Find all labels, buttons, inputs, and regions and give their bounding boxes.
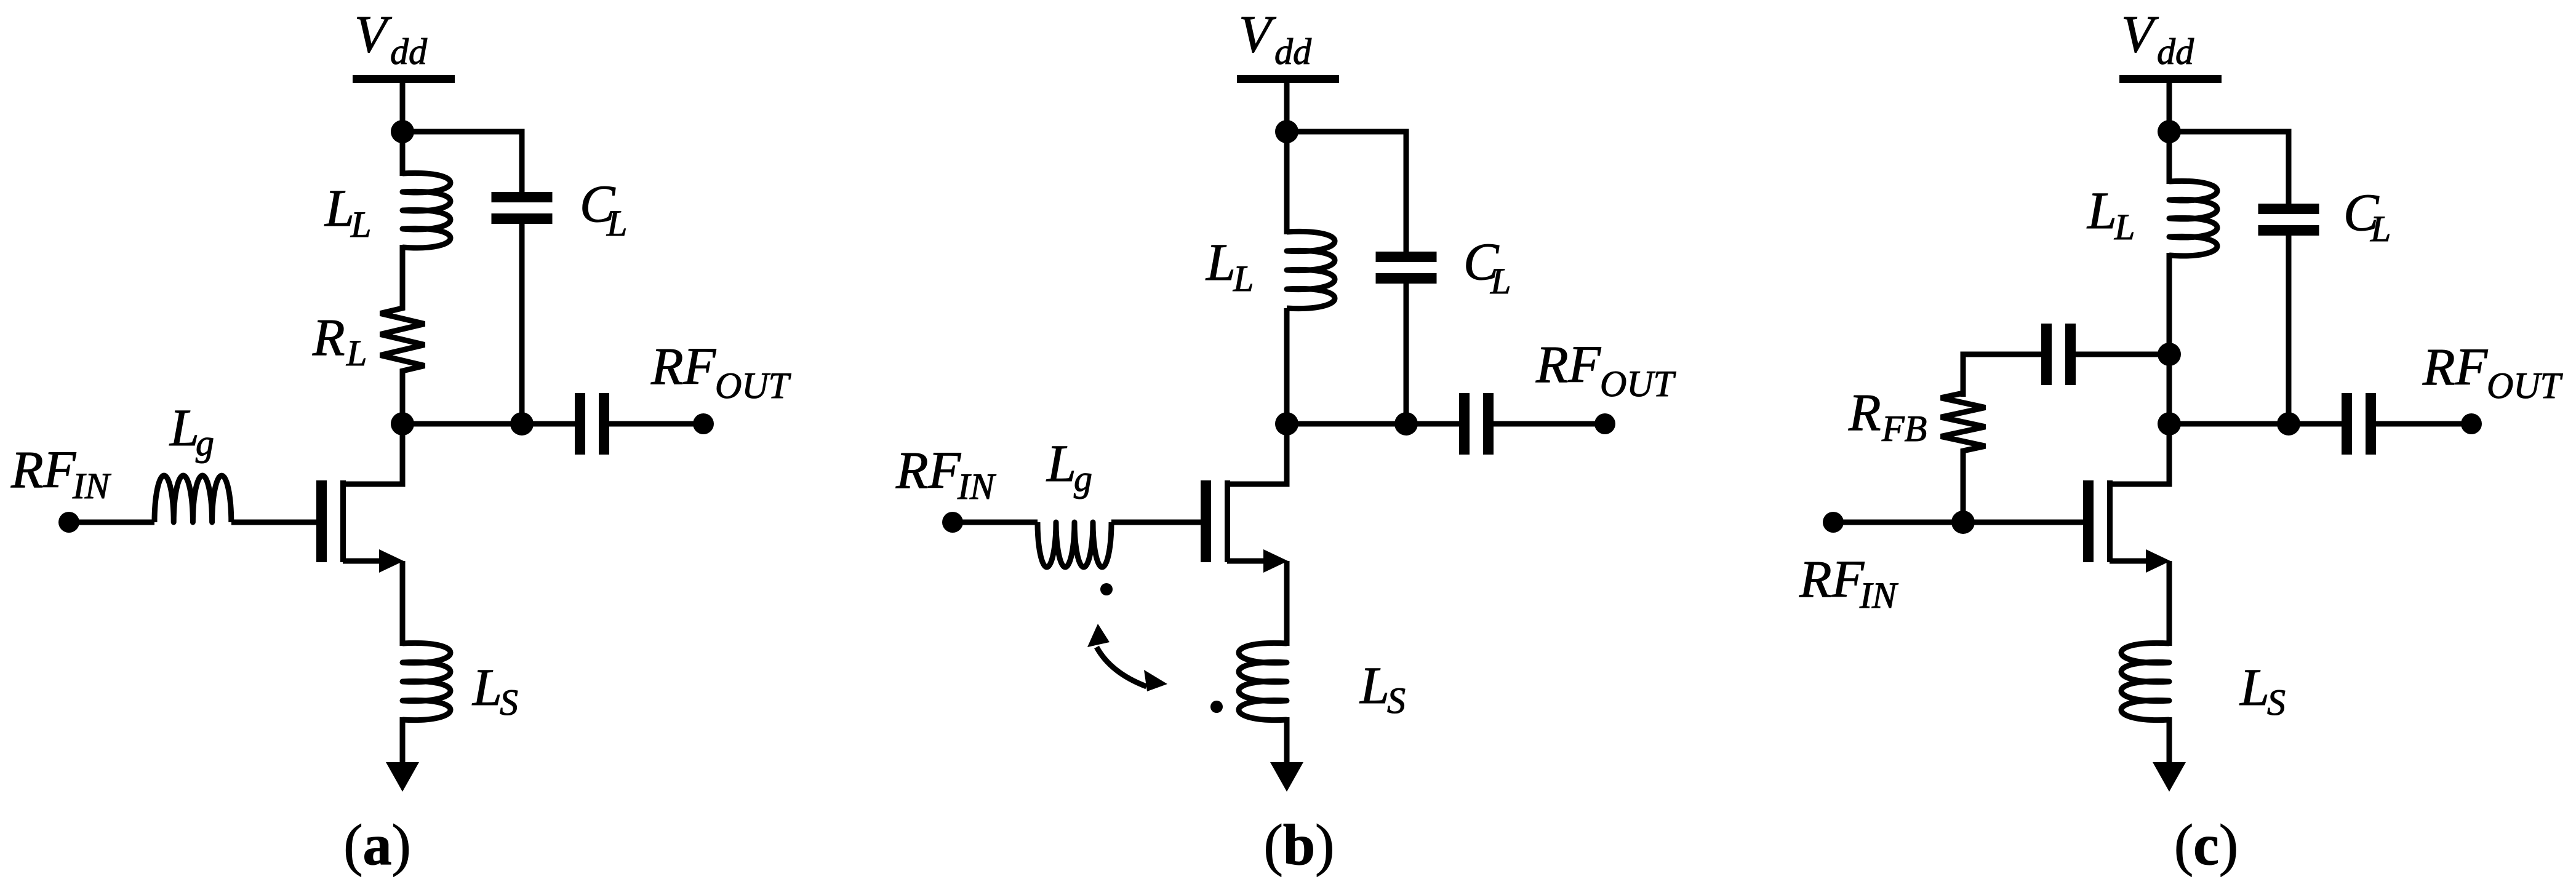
resistor RFB (c) with leads	[1941, 354, 1985, 522]
power rail Vdd bar (a)	[353, 75, 455, 83]
svg-text:RF: RF	[1535, 335, 1602, 394]
capacitor CL bottom plate (a)	[492, 213, 553, 224]
wire: LL bottom to drain node (b)	[1284, 308, 1290, 424]
svg-text:V: V	[1239, 4, 1276, 63]
wire: coupling cap to RFOUT (c)	[2376, 421, 2471, 427]
wire: node to LL top (a)	[400, 132, 406, 176]
svg-text:OUT: OUT	[715, 365, 791, 406]
svg-text:RF: RF	[2422, 337, 2489, 396]
capacitor CL top plate (b)	[1376, 252, 1437, 262]
capacitor CL top plate (c)	[2258, 204, 2319, 214]
capacitor Cfb left plate (c)	[2041, 324, 2052, 385]
capacitor Cout right plate (a)	[599, 393, 609, 455]
wire: Vdd stem (a)	[400, 83, 406, 132]
svg-text:RF: RF	[895, 440, 962, 499]
wire: LS to ground (b)	[1284, 717, 1290, 765]
power rail Vdd bar (c)	[2119, 75, 2222, 83]
capacitor CL top plate (a)	[492, 192, 553, 202]
wire: source to LS (c)	[2167, 561, 2172, 646]
svg-text:RF: RF	[10, 440, 77, 499]
wire: RFIN to Lg (a)	[69, 520, 154, 525]
svg-text:V: V	[354, 4, 392, 63]
inductor LL (a)	[402, 173, 450, 248]
source arrow of M1 (a)	[379, 549, 404, 573]
capacitor Cfb right plate (c)	[2065, 324, 2076, 385]
resistor RL (a) with leads	[380, 245, 425, 424]
wire: Vdd node to CL branch (c)	[2169, 132, 2289, 204]
capacitor CL bottom plate (b)	[1376, 273, 1437, 284]
wire: coupling cap to RFOUT (a)	[609, 421, 703, 427]
wire: drain of M1 (c)	[2110, 426, 2169, 484]
wire: Vdd stem (c)	[2167, 83, 2172, 132]
inductor LS (c)	[2121, 643, 2169, 720]
svg-text:S: S	[2267, 682, 2286, 723]
svg-text:IN: IN	[72, 466, 111, 506]
svg-text:g: g	[196, 423, 214, 463]
wire: RFIN to Lg (b)	[953, 520, 1038, 525]
node: drain junction (c)	[2158, 412, 2181, 436]
node: drain junction (b)	[1275, 412, 1298, 436]
node: CL/output junction (c)	[2277, 412, 2300, 436]
terminal RFOUT (c)	[2461, 413, 2482, 434]
svg-text:L: L	[346, 333, 367, 373]
svg-text:(c): (c)	[2174, 813, 2238, 877]
svg-text:OUT: OUT	[1600, 364, 1676, 404]
transistor M1 channel (c)	[2107, 480, 2113, 562]
svg-text:L: L	[1490, 261, 1511, 301]
svg-text:S: S	[1387, 680, 1406, 721]
wire: drain row (c)	[2169, 421, 2289, 427]
svg-text:dd: dd	[1274, 31, 1312, 72]
wire: drain row (b)	[1287, 421, 1406, 427]
node: CL/output junction (b)	[1394, 412, 1418, 436]
capacitor Cout right plate (c)	[2366, 393, 2376, 455]
wire: source of M1 (a)	[343, 559, 388, 564]
svg-text:S: S	[500, 682, 518, 723]
inductor Lg (a)	[154, 475, 231, 522]
wire: LS to ground (a)	[400, 717, 406, 765]
svg-text:V: V	[2121, 4, 2159, 63]
svg-text:RF: RF	[650, 336, 717, 396]
wire: node to LL top (c)	[2167, 132, 2172, 184]
ground arrow (a)	[386, 762, 419, 792]
svg-text:L: L	[2370, 209, 2391, 249]
wire: Vdd stem (b)	[1284, 83, 1290, 132]
node: Vdd junction (a)	[391, 120, 414, 143]
svg-text:dd: dd	[390, 31, 428, 72]
wire: Lg to gate (a)	[231, 520, 316, 525]
wire: source to LS (a)	[400, 561, 406, 646]
svg-text:(a): (a)	[343, 813, 411, 877]
terminal RFIN (a)	[58, 512, 79, 533]
transistor M1 channel (b)	[1225, 480, 1230, 562]
coupling arrow head down (b)	[1144, 670, 1167, 691]
wire: CL bottom lead (b)	[1404, 284, 1409, 424]
svg-text:L: L	[471, 658, 502, 717]
wire: drain node to coupling cap (b)	[1406, 421, 1459, 427]
inductor LL (b)	[1287, 231, 1335, 308]
wire: source to LS (b)	[1284, 561, 1290, 646]
inductor LS (a)	[402, 643, 450, 720]
svg-text:L: L	[2239, 658, 2270, 717]
svg-text:L: L	[1359, 656, 1390, 715]
coupling dot at Lg (b)	[1100, 583, 1113, 595]
coupling arrow head up (b)	[1087, 624, 1110, 647]
svg-text:L: L	[1233, 258, 1254, 299]
transistor M1 gate bar (b)	[1201, 480, 1211, 562]
coupling dot at LS (b)	[1210, 701, 1223, 713]
capacitor Cout left plate (b)	[1459, 393, 1470, 455]
source arrow of M1 (c)	[2146, 549, 2170, 573]
wire: Vdd node to CL branch (b)	[1287, 132, 1406, 252]
svg-text:RF: RF	[1799, 549, 1865, 608]
wire: CL bottom lead (a)	[519, 224, 525, 424]
svg-text:R: R	[1848, 383, 1881, 442]
terminal RFOUT (b)	[1594, 413, 1615, 434]
node: feedback tap (c)	[2158, 343, 2181, 366]
svg-text:L: L	[2086, 181, 2117, 240]
wire: LL bottom through feedback node to drain node (c)	[2167, 253, 2172, 424]
svg-text:IN: IN	[957, 466, 996, 507]
wire: RFIN to gate (c)	[1833, 520, 2083, 525]
terminal RFOUT (a)	[693, 413, 714, 434]
terminal RFIN (b)	[942, 512, 963, 533]
wire: drain node to coupling cap (c)	[2289, 421, 2342, 427]
svg-text:L: L	[350, 204, 371, 245]
svg-text:L: L	[1046, 434, 1076, 493]
wire: node to LL top (b)	[1284, 132, 1290, 234]
transistor M1 gate bar (a)	[316, 480, 327, 562]
wire: drain row (a)	[402, 421, 522, 427]
wire: source of M1 (b)	[1227, 559, 1272, 564]
svg-text:L: L	[324, 178, 354, 237]
wire: source of M1 (c)	[2110, 559, 2154, 564]
svg-text:IN: IN	[1859, 575, 1898, 616]
wire: drain node to coupling cap (a)	[522, 421, 575, 427]
svg-text:R: R	[312, 308, 345, 367]
transistor M1 channel (a)	[340, 480, 346, 562]
transistor M1 gate bar (c)	[2083, 480, 2094, 562]
wire: feedback corner to RFB (c)	[1963, 354, 2041, 397]
svg-text:g: g	[1074, 458, 1092, 499]
node: Vdd junction (b)	[1275, 120, 1298, 143]
wire: Lg to gate (b)	[1111, 520, 1201, 525]
node: drain junction (a)	[391, 412, 414, 436]
terminal RFIN (c)	[1823, 512, 1844, 533]
svg-text:L: L	[169, 398, 199, 457]
wire: coupling cap to RFOUT (b)	[1494, 421, 1605, 427]
capacitor Cout left plate (a)	[575, 393, 585, 455]
node: Vdd junction (c)	[2158, 120, 2181, 143]
svg-text:L: L	[2114, 207, 2135, 247]
wire: Vdd node to CL branch (a)	[402, 132, 522, 192]
node: CL/output junction (a)	[510, 412, 534, 436]
ground arrow (c)	[2153, 762, 2186, 792]
svg-text:OUT: OUT	[2487, 365, 2563, 406]
ground arrow (b)	[1270, 762, 1303, 792]
svg-text:(b): (b)	[1264, 813, 1335, 877]
coupling arrow arc (b)	[1097, 647, 1146, 686]
svg-text:FB: FB	[1881, 408, 1927, 449]
capacitor Cout left plate (c)	[2342, 393, 2352, 455]
power rail Vdd bar (b)	[1237, 75, 1339, 83]
wire: LS to ground (c)	[2167, 717, 2172, 765]
svg-text:dd: dd	[2157, 31, 2194, 72]
svg-text:L: L	[606, 203, 627, 244]
wire: drain of M1 (a)	[343, 426, 402, 484]
inductor Lg (b)	[1038, 522, 1111, 567]
inductor LS (b)	[1239, 643, 1287, 720]
source arrow of M1 (b)	[1263, 549, 1288, 573]
capacitor Cout right plate (b)	[1483, 393, 1494, 455]
capacitor CL bottom plate (c)	[2258, 225, 2319, 236]
wire: drain of M1 (b)	[1227, 426, 1287, 484]
node: gate/feedback junction (c)	[1951, 511, 1975, 534]
svg-text:L: L	[1205, 233, 1236, 292]
wire: CL bottom lead (c)	[2286, 236, 2292, 424]
inductor LL (c)	[2169, 181, 2217, 256]
wire: feedback cap to tap (c)	[2076, 352, 2169, 357]
